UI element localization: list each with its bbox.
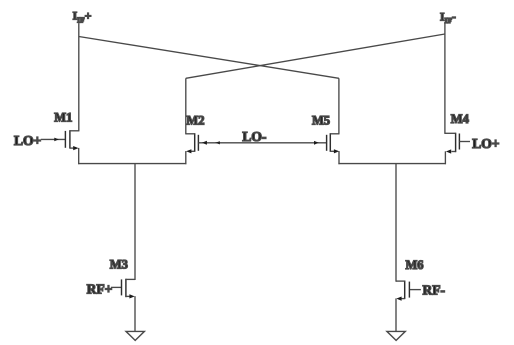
transistor M5 [327,133,340,153]
ground under M3 [126,331,144,340]
svg-text:LO-: LO- [242,129,266,144]
wire M5 source vertical [338,151,340,164]
wire M2 source vertical [185,151,187,164]
svg-text:RF-: RF- [423,283,446,298]
svg-text:M4: M4 [451,112,470,126]
wire M3 drain vertical [134,164,136,280]
wire IF+ to M5 drain diagonal [79,37,339,79]
transistor M2 [186,133,199,153]
wire M6 source vertical [395,298,397,331]
wire right source rail [338,163,446,165]
svg-text:RF+: RF+ [87,281,113,296]
svg-text:IIF-: IIF- [440,12,456,25]
transistor M1 [41,130,79,150]
wire left source rail [78,163,186,165]
svg-text:IIF+: IIF+ [73,8,92,24]
svg-text:M3: M3 [110,258,128,272]
svg-text:LO+: LO+ [472,136,499,151]
svg-text:M5: M5 [312,114,330,128]
wire IF- vertical [444,23,446,134]
wire M6 drain vertical [395,164,397,282]
svg-text:M6: M6 [406,258,424,272]
transistor M3 [111,279,135,299]
wire LO- gate line [198,142,326,144]
wire IF+ vertical [78,23,80,131]
wire M4 source vertical [444,151,446,164]
svg-text:M1: M1 [54,110,72,124]
wire IF- to M2 drain diagonal [186,34,445,78]
svg-text:LO+: LO+ [14,133,41,148]
wire M1 source vertical [78,148,80,164]
wire M5 drain vertical [338,78,340,134]
wire M2 drain vertical [185,78,187,134]
ground under M6 [387,331,405,340]
svg-text:M2: M2 [186,114,204,128]
transistor M6 [396,281,421,301]
transistor M4 [445,133,470,154]
wire M3 source vertical [134,296,136,332]
